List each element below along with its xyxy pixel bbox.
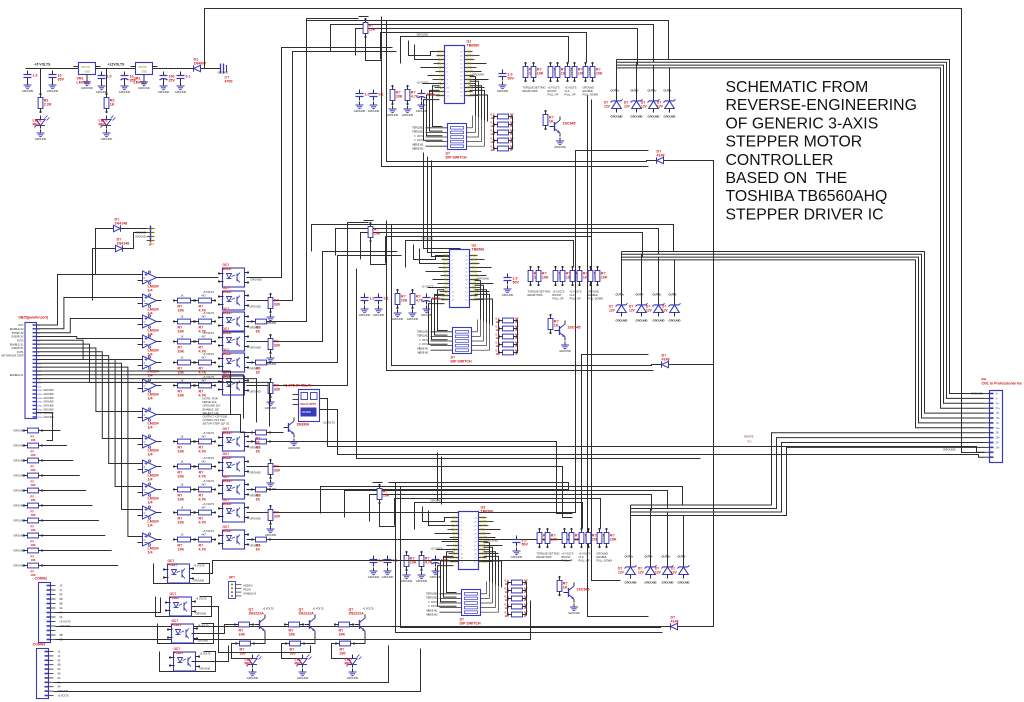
svg-text:10K: 10K <box>31 498 36 502</box>
notes text <box>203 397 230 426</box>
svg-text:+12VOLTS: +12VOLTS <box>323 422 336 425</box>
svg-text:2N2222A: 2N2222A <box>349 612 365 616</box>
svg-text:4K7: 4K7 <box>202 295 207 298</box>
svg-text:TORQUE SETTING: TORQUE SETTING <box>537 552 560 556</box>
resistor Rs0 <box>493 114 513 119</box>
svg-text:12V: 12V <box>655 570 662 574</box>
svg-text:PC817: PC817 <box>170 596 180 600</box>
svg-text:+5 VOLTS: +5 VOLTS <box>203 291 215 294</box>
svg-text:GROUND: GROUND <box>194 580 205 583</box>
svg-text:GROUND: GROUND <box>373 313 385 317</box>
wire block outline 2 <box>392 225 658 366</box>
svg-text:A: A <box>510 132 512 136</box>
wire sense right <box>512 117 514 149</box>
resistor Rh10 <box>251 537 271 552</box>
ground <box>22 82 34 94</box>
svg-text:+5 VOLTS: +5 VOLTS <box>570 290 582 294</box>
ground <box>387 106 399 118</box>
wire q to r <box>355 635 366 644</box>
svg-text:GROUND: GROUND <box>616 319 628 323</box>
resistor Rb0 <box>234 622 254 637</box>
relay K1 SPDT <box>284 384 326 422</box>
svg-text:GROUND: GROUND <box>431 499 443 503</box>
resistor Rs1 <box>498 326 518 331</box>
svg-text:SCHEMATIC FROM: SCHEMATIC FROM <box>726 79 869 96</box>
svg-text:NFA: NFA <box>471 266 476 270</box>
resistor Rs4 <box>507 612 527 617</box>
wire out bundle <box>631 438 985 509</box>
svg-text:DCY2: DCY2 <box>422 343 429 346</box>
svg-text:1K: 1K <box>110 103 115 107</box>
wire bus inner <box>409 41 440 56</box>
wire res join <box>43 475 80 477</box>
svg-text:A: A <box>510 116 512 120</box>
svg-text:1K: 1K <box>181 316 184 319</box>
svg-text:DCY2: DCY2 <box>417 139 424 142</box>
diode D3 <box>111 218 128 232</box>
op-amp U spare <box>138 408 162 430</box>
wire ic left pin <box>444 556 457 597</box>
resistor Rp0a <box>537 528 550 548</box>
svg-text:GROUND: GROUND <box>35 137 47 141</box>
svg-text:1W: 1W <box>496 344 501 348</box>
diode zener D2 <box>655 564 674 579</box>
wire out diode drop <box>616 60 618 93</box>
svg-text:GROUND: GROUND <box>559 349 571 353</box>
svg-text:1W: 1W <box>505 606 510 610</box>
svg-text:CLK: CLK <box>570 293 575 297</box>
wire block outline left/bottom <box>382 17 649 167</box>
resistor Rt9 <box>268 505 280 525</box>
ground <box>96 83 108 95</box>
resistor Rp2a <box>565 62 578 82</box>
svg-text:GROUND: GROUND <box>288 446 300 450</box>
wire <box>674 313 676 317</box>
svg-text:1K: 1K <box>181 336 184 339</box>
svg-text:12V: 12V <box>638 570 645 574</box>
wire <box>366 38 382 61</box>
svg-text:OSC: OSC <box>442 254 448 258</box>
svg-text:GND: GND <box>442 258 448 262</box>
wire ic right pin <box>470 77 476 116</box>
svg-text:CW: CW <box>439 70 444 74</box>
wire out bundle <box>617 68 985 408</box>
wire out diode drop <box>636 62 638 92</box>
resistor Rp1b <box>569 528 582 548</box>
svg-text:OUTA-: OUTA- <box>480 524 488 528</box>
svg-text:DIP SWITCH: DIP SWITCH <box>451 360 473 364</box>
svg-text:RST: RST <box>443 270 449 274</box>
wire en chain <box>653 161 714 627</box>
svg-text:A: A <box>524 614 526 618</box>
wire bus <box>381 33 587 63</box>
svg-text:GROUND: GROUND <box>250 391 261 394</box>
svg-text:GROUND: GROUND <box>247 676 259 680</box>
svg-text:1W: 1W <box>496 336 501 340</box>
svg-text:12V: 12V <box>641 104 648 108</box>
svg-text:GROUND: GROUND <box>368 109 380 113</box>
wire <box>359 16 369 18</box>
op-amp U4 <box>138 356 162 378</box>
capacitor Cosc <box>513 536 529 547</box>
svg-text:1/4: 1/4 <box>148 524 153 528</box>
svg-text:+5 VOLTS: +5 VOLTS <box>363 608 374 611</box>
wire bottom join4 <box>192 646 229 662</box>
svg-text:DIP SWITCH: DIP SWITCH <box>460 622 482 626</box>
svg-text:4.7K: 4.7K <box>199 498 207 502</box>
svg-text:GND: GND <box>38 413 43 415</box>
op-amp U5 <box>138 379 162 401</box>
op-amp U10 <box>138 533 162 555</box>
wire opto box <box>154 564 210 584</box>
svg-text:GROUND: GROUND <box>382 575 394 579</box>
wire d3 left <box>96 229 111 275</box>
svg-text:GND: GND <box>85 71 91 74</box>
svg-text:GROUND: GROUND <box>251 279 262 282</box>
svg-text:A: A <box>515 328 517 332</box>
LED L0 <box>245 655 262 668</box>
svg-text:CLK: CLK <box>438 58 443 62</box>
svg-text:TB6560: TB6560 <box>472 248 485 252</box>
svg-text:4148: 4148 <box>662 358 670 362</box>
resistor Rp3b <box>595 266 608 286</box>
svg-text:9A: 9A <box>58 686 61 689</box>
title text block <box>726 79 917 223</box>
op-amp U8 <box>138 483 162 505</box>
svg-text:VMA: VMA <box>466 50 472 54</box>
svg-text:TQ2: TQ2 <box>443 290 449 294</box>
connector J3 <box>33 643 54 699</box>
optocoupler OC9 <box>218 498 249 522</box>
wire bus inner2 <box>415 45 427 60</box>
resistor Rb2 <box>334 622 354 637</box>
svg-text:PULL-DOWN: PULL-DOWN <box>597 558 613 562</box>
svg-text:1N4148: 1N4148 <box>115 222 128 226</box>
svg-text:ENA: ENA <box>443 266 449 270</box>
svg-text:6N137: 6N137 <box>223 502 233 506</box>
wire d4 left <box>93 249 113 301</box>
svg-text:XA-: XA- <box>996 402 1000 405</box>
svg-text:A: A <box>510 124 512 128</box>
svg-text:ROUTE: ROUTE <box>745 436 754 439</box>
wire out diode drop <box>621 252 623 297</box>
wire bus inner <box>414 245 445 260</box>
wire out diode drop <box>667 512 669 559</box>
resistor Rs3 <box>493 138 513 143</box>
wire ic right pin <box>475 299 493 326</box>
connector JP mode <box>229 576 257 599</box>
svg-text:12V: 12V <box>662 308 669 312</box>
svg-text:1.0: 1.0 <box>365 93 370 97</box>
wire ic left pin <box>427 95 443 136</box>
svg-text:4K7: 4K7 <box>202 336 207 339</box>
wire <box>636 93 638 98</box>
wire block outline 2 <box>387 21 653 162</box>
svg-text:VDD: VDD <box>480 548 486 552</box>
wire bottom join3 <box>192 625 235 634</box>
svg-text:1/4: 1/4 <box>148 478 153 482</box>
svg-text:12V: 12V <box>646 308 653 312</box>
svg-text:YA+: YA+ <box>996 427 1001 430</box>
wire ic right pin <box>470 86 482 119</box>
svg-text:GROUND: GROUND <box>13 520 24 523</box>
svg-text:OUT: OUT <box>18 324 24 327</box>
resistor Rb <box>557 576 568 596</box>
wire <box>641 297 643 302</box>
resistor Rp3b <box>590 62 603 82</box>
svg-text:4148: 4148 <box>657 154 665 158</box>
svg-text:GROUND: GROUND <box>653 319 665 323</box>
svg-text:TB6560: TB6560 <box>467 44 480 48</box>
svg-text:+5 VOLTS: +5 VOLTS <box>194 565 205 568</box>
svg-text:GND: GND <box>38 409 43 411</box>
svg-text:+5 VOLTS: +5 VOLTS <box>562 552 574 556</box>
svg-text:BOOST: BOOST <box>548 89 557 93</box>
svg-text:1W: 1W <box>496 320 501 324</box>
svg-text:GROUND: GROUND <box>135 237 146 239</box>
svg-text:PULL-DOWN: PULL-DOWN <box>588 296 604 300</box>
resistor Rp0b <box>545 528 558 548</box>
wire <box>616 93 618 98</box>
op-amp U7 <box>138 460 162 482</box>
ground <box>502 286 514 298</box>
zener LED1 <box>33 116 50 129</box>
svg-text:1/4: 1/4 <box>148 551 153 555</box>
svg-text:12V: 12V <box>604 104 611 108</box>
wire bus <box>336 229 659 256</box>
svg-text:1K: 1K <box>181 484 184 487</box>
wire to top rail <box>204 9 206 69</box>
wire bus inner2 <box>429 511 441 526</box>
wire out bundle <box>617 60 985 394</box>
svg-text:10K: 10K <box>178 548 185 552</box>
svg-text:SETUP STEP 11F S1: SETUP STEP 11F S1 <box>203 422 230 426</box>
resistor Ra4 <box>173 357 195 375</box>
svg-text:TQ1: TQ1 <box>438 82 444 86</box>
wire to relay q <box>271 432 284 434</box>
ground <box>416 572 428 584</box>
svg-text:1W: 1W <box>505 598 510 602</box>
svg-text:GROUND: GROUND <box>678 581 690 585</box>
resistor Rs0 <box>498 318 518 323</box>
wire ic left pin <box>438 290 448 331</box>
ground <box>247 669 259 681</box>
capacitor Cdec2 <box>384 556 398 567</box>
ground <box>101 130 113 142</box>
resistor Rp1a <box>562 528 575 548</box>
wire <box>616 109 618 113</box>
svg-text:GND: GND <box>38 390 43 392</box>
svg-text:10K: 10K <box>339 633 346 637</box>
wire r to led <box>282 644 303 659</box>
resistor Rp0b <box>536 266 549 286</box>
resistor Rh2 <box>251 319 271 334</box>
ground <box>416 102 428 114</box>
svg-text:CN1 to Professional Inc: CN1 to Professional Inc <box>982 382 1022 386</box>
resistor Rs4 <box>493 146 513 151</box>
resistor Rdec2 <box>410 289 424 309</box>
wire res join <box>43 490 87 492</box>
wire res join <box>43 535 106 537</box>
svg-text:1/4: 1/4 <box>148 289 153 293</box>
optocoupler OC4 <box>218 348 249 372</box>
svg-text:VDD: VDD <box>471 286 477 290</box>
svg-text:CONN3: CONN3 <box>33 643 46 647</box>
resistor Rs4 <box>498 350 518 355</box>
svg-text:GROUND: GROUND <box>416 579 428 583</box>
svg-text:RESISTORS: RESISTORS <box>523 89 538 93</box>
svg-text:DIP SWITCH: DIP SWITCH <box>446 156 468 160</box>
svg-text:0.1: 0.1 <box>379 93 384 97</box>
resistor Rp1b <box>560 266 573 286</box>
ground <box>568 604 580 616</box>
DIP switch S1 <box>412 104 485 160</box>
svg-text:10K: 10K <box>369 28 376 32</box>
svg-text:A: A <box>524 582 526 586</box>
svg-text:10K: 10K <box>374 232 381 236</box>
wire ic right pin <box>484 552 496 585</box>
svg-text:XA+: XA+ <box>996 407 1001 410</box>
svg-text:GROUND: GROUND <box>554 145 566 149</box>
wire row0 <box>162 277 219 279</box>
wire fan <box>37 352 138 439</box>
svg-text:ENABLE: ENABLE <box>583 89 594 93</box>
wire en chain stub2 <box>654 364 714 366</box>
svg-text:4K7: 4K7 <box>202 436 207 439</box>
wire out bundle <box>617 65 985 403</box>
diode D4 <box>113 238 130 252</box>
svg-text:GROUND: GROUND <box>422 237 434 241</box>
resistor Rdec1 <box>395 289 408 309</box>
resistor Rp0b <box>531 62 544 82</box>
wire out diode drop <box>641 254 643 296</box>
svg-text:JP?: JP? <box>149 243 155 247</box>
resistor Rg7 <box>23 533 43 538</box>
svg-text:GND: GND <box>38 406 43 408</box>
svg-text:GROUND: GROUND <box>250 472 261 475</box>
svg-text:RELAY: RELAY <box>244 589 252 592</box>
svg-text:GROUND: GROUND <box>645 581 657 585</box>
wire j2 out2 <box>56 601 531 640</box>
svg-text:1W: 1W <box>491 116 496 120</box>
diode zener D1 <box>624 98 643 113</box>
DIP switch S2 <box>417 308 490 364</box>
svg-text:GROUND: GROUND <box>196 613 207 616</box>
svg-text:1K: 1K <box>181 534 184 537</box>
capacitor Cosc <box>499 70 515 81</box>
svg-text:VMB: VMB <box>471 270 477 274</box>
svg-text:OUTB-: OUTB- <box>678 555 687 559</box>
optocoupler OC8 <box>218 475 249 499</box>
resistor Rp0a <box>528 266 541 286</box>
wire <box>683 575 685 579</box>
wire ic right pin <box>484 547 493 583</box>
svg-text:RESISTORS: RESISTORS <box>528 293 543 297</box>
svg-text:4700: 4700 <box>225 80 233 84</box>
resistor Rp2b <box>572 62 585 82</box>
svg-text:REVERSE-ENGINEERING: REVERSE-ENGINEERING <box>726 97 917 114</box>
svg-text:5A: 5A <box>60 616 63 619</box>
svg-text:+5 VOLTS: +5 VOLTS <box>422 285 434 289</box>
svg-text:10K: 10K <box>401 299 408 303</box>
op-amp U2 <box>138 315 162 337</box>
resistor Rtop <box>377 484 390 504</box>
svg-text:GND: GND <box>38 402 43 404</box>
svg-text:VDD: VDD <box>466 82 472 86</box>
resistor Ra6 <box>173 436 195 454</box>
resistor Rg6 <box>23 518 43 523</box>
wire j3 out2 <box>54 646 389 683</box>
wire net aux4 <box>592 100 621 581</box>
svg-text:CLK: CLK <box>443 262 448 266</box>
resistor R2 <box>104 93 115 113</box>
svg-text:10K: 10K <box>178 330 185 334</box>
wire bus <box>345 491 668 518</box>
svg-text:1/4: 1/4 <box>148 426 153 430</box>
wire +5V rail <box>26 68 216 70</box>
resistor Ra1 <box>173 295 195 313</box>
wire out diode drop <box>683 516 685 559</box>
svg-text:12V: 12V <box>609 308 616 312</box>
svg-text:GROUND: GROUND <box>297 676 309 680</box>
svg-text:10K: 10K <box>178 475 185 479</box>
svg-text:GROUND: GROUND <box>611 115 623 119</box>
svg-text:6N137: 6N137 <box>223 529 233 533</box>
svg-text:GROUND: GROUND <box>662 581 674 585</box>
wire <box>658 313 660 317</box>
ground <box>554 138 566 150</box>
svg-text:PULL-UP: PULL-UP <box>570 296 581 300</box>
svg-text:GROUND: GROUND <box>250 347 261 350</box>
svg-text:10K: 10K <box>31 483 36 487</box>
svg-text:DCY1: DCY1 <box>431 601 438 604</box>
ground <box>175 83 187 95</box>
svg-text:GROUND: GROUND <box>265 406 277 410</box>
wire ic left pin <box>447 552 457 593</box>
wire fan <box>37 340 138 359</box>
svg-text:6N137: 6N137 <box>223 331 233 335</box>
capacitor Cdec2 <box>375 294 389 305</box>
wire ic left pin <box>430 90 443 131</box>
svg-text:6N137: 6N137 <box>223 311 233 315</box>
resistor Ra7 <box>173 461 195 479</box>
svg-text:GROUND: GROUND <box>511 555 523 559</box>
svg-text:PULL-UP: PULL-UP <box>565 92 576 96</box>
ground <box>347 669 359 681</box>
svg-text:330: 330 <box>274 344 280 348</box>
resistor Rp3a <box>583 62 596 82</box>
svg-text:1K: 1K <box>181 436 184 439</box>
svg-text:A: A <box>524 606 526 610</box>
svg-text:ZA-: ZA- <box>996 442 1000 445</box>
optocoupler OC2 <box>218 307 249 331</box>
wire q to r <box>305 635 316 644</box>
svg-text:M2: M2 <box>453 544 457 548</box>
svg-text:GROUND: GROUND <box>387 113 399 117</box>
resistor Rp3a <box>588 266 601 286</box>
capacitor Cdec3 <box>432 556 450 567</box>
ground <box>430 568 442 580</box>
capacitor C4 <box>121 72 137 83</box>
resistor Rb1 <box>284 622 304 637</box>
wire out bundle <box>631 447 985 515</box>
optocoupler OC7 <box>218 452 249 476</box>
svg-text:4.7K: 4.7K <box>199 450 207 454</box>
svg-text:VMA: VMA <box>480 516 486 520</box>
svg-text:0.1: 0.1 <box>384 297 389 301</box>
ground <box>368 568 380 580</box>
svg-text:ENA: ENA <box>452 528 458 532</box>
